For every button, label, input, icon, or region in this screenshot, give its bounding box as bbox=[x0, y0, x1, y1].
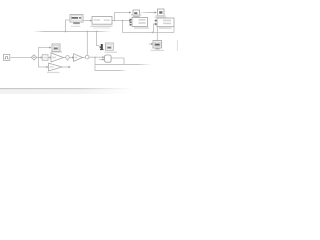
junction on B output at branch x114.5 bbox=[114, 20, 116, 22]
arrowhead into E top bbox=[129, 19, 131, 21]
partial block at right edge bbox=[176, 40, 179, 51]
junction on net y31.5 at scope tap bbox=[65, 31, 67, 33]
scope block A bbox=[70, 15, 83, 23]
wire triangle1 to sum1 bbox=[64, 57, 66, 59]
wire outport drop bbox=[97, 32, 100, 46]
lower triangle bbox=[49, 63, 63, 71]
block D small scope bbox=[158, 9, 165, 16]
arrowhead into D bbox=[155, 11, 157, 13]
label below scope A bbox=[71, 26, 81, 27]
wire horizontal net y31.5 left bbox=[33, 30, 112, 33]
outport number 1 glyph bbox=[101, 44, 103, 50]
junction on main wire at branch x95 bbox=[94, 57, 96, 59]
junction on net y31.5 at outport tap bbox=[96, 31, 98, 33]
wire elbow up into F lower input bbox=[154, 24, 157, 33]
wire right end up bbox=[173, 27, 175, 33]
arrowhead into triangle2 bbox=[72, 56, 74, 58]
arrowhead into triangle1 bbox=[50, 56, 52, 58]
label below block D bbox=[155, 17, 167, 18]
block C small scope bbox=[133, 10, 140, 16]
bottom canvas-edge line bbox=[0, 88, 132, 89]
arrowhead into B bbox=[90, 20, 92, 22]
diamond junction bbox=[31, 55, 36, 60]
wire main row source to diamond bbox=[11, 57, 32, 59]
junction on B output at branch x122.5 bbox=[122, 20, 124, 22]
wire branch up to block I bbox=[39, 48, 50, 58]
sum1 circle bbox=[66, 56, 70, 60]
block H small display bbox=[106, 43, 114, 50]
source block bbox=[4, 54, 10, 60]
wire branch up to block C bbox=[115, 13, 130, 21]
wire sum2 to mux bbox=[89, 56, 105, 58]
wire vertical feedback into sum2 bbox=[86, 32, 88, 56]
label above triangle1 / below block I bbox=[51, 51, 63, 53]
wire block to triangle1 bbox=[48, 57, 51, 59]
junction on net y31.5 at feedback tap bbox=[86, 31, 88, 33]
label below block B bbox=[91, 26, 113, 27]
wire stub into scope G bbox=[149, 43, 152, 45]
label below block E bbox=[134, 27, 149, 28]
label below scope G bbox=[151, 50, 165, 51]
triangle2 bbox=[74, 54, 83, 62]
arrowhead into mux input1 bbox=[102, 56, 104, 58]
block F subsystem bbox=[157, 18, 174, 27]
wire lower triangle output bbox=[62, 66, 69, 68]
label below lower triangle bbox=[47, 72, 60, 73]
label above block F bbox=[156, 15, 166, 16]
block E subsystem bbox=[132, 18, 148, 27]
arrowhead into gain block b3 bbox=[41, 56, 43, 58]
wire feedback line y70.5 bbox=[95, 69, 128, 72]
label above block E bbox=[131, 14, 142, 15]
wire block B output bbox=[112, 20, 129, 22]
canvas background bbox=[0, 0, 180, 94]
wire branch down at x95 bbox=[94, 58, 96, 71]
wire scope A out to block B bbox=[83, 20, 92, 22]
wire branch down from B output bbox=[122, 21, 124, 33]
wire feedback line y64.5 bbox=[95, 63, 152, 66]
wire triangle2 to sum2 bbox=[83, 57, 86, 59]
arrowhead into block I bbox=[49, 46, 51, 48]
wire branch down to lower triangle bbox=[39, 58, 47, 68]
wire stub second mux input bbox=[99, 59, 104, 61]
wire sum1 to triangle2 bbox=[69, 57, 73, 59]
arrowhead into lower triangle bbox=[46, 66, 48, 68]
triangle1 bbox=[51, 53, 64, 62]
block I small display upper-left bbox=[52, 44, 60, 51]
junction on main wire at branch x38.5 bbox=[38, 57, 40, 59]
wire horizontal net y32.5 right bbox=[123, 32, 175, 34]
label below block F bbox=[159, 27, 172, 28]
block B bbox=[92, 17, 112, 25]
label below block H bbox=[105, 52, 118, 53]
scope block G bbox=[153, 41, 162, 49]
arrowhead into G bbox=[151, 43, 153, 45]
wire C to D bbox=[140, 11, 156, 14]
wire mux output elbow bbox=[111, 58, 124, 65]
sum2 circle bbox=[85, 55, 89, 59]
arrowhead lower out bbox=[69, 66, 71, 68]
wire F bottom down to scope G bbox=[156, 27, 158, 41]
gain small block bbox=[42, 55, 48, 60]
bottom canvas-edge strip bbox=[0, 89, 135, 94]
wire diamond to gain block bbox=[36, 57, 41, 59]
wire scope A left port bbox=[66, 20, 70, 32]
arrowhead into C bbox=[129, 11, 131, 13]
arrowhead into mux input2 bbox=[102, 58, 104, 60]
junction on net y32.5 bbox=[152, 32, 154, 34]
mux block bbox=[105, 55, 112, 62]
